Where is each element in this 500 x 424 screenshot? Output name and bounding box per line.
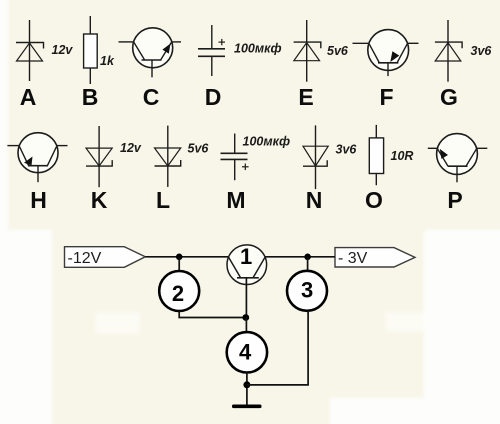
emitter arrow (162, 44, 170, 54)
junction dot right (304, 253, 311, 260)
resistor O (10R) (369, 125, 383, 185)
wire junction to circle 4 (245, 318, 247, 333)
wire component 1 to -3V flag (265, 256, 335, 258)
wire (375, 174, 377, 186)
wire (167, 126, 169, 187)
svg-text:100мкф: 100мкф (234, 42, 282, 56)
svg-text:P: P (447, 187, 462, 213)
cathode bar with bent end (303, 160, 327, 166)
white margin bottom strip (330, 398, 435, 424)
power flag -12V (65, 247, 146, 268)
wire (211, 56, 213, 76)
emitter diagonal (19, 146, 28, 165)
unknown component 3 (287, 271, 327, 311)
emitter arrow (440, 149, 448, 159)
ground (232, 405, 262, 409)
anode triangle (303, 146, 328, 166)
ground junction dot (243, 381, 250, 388)
svg-text:3v6: 3v6 (471, 44, 493, 58)
cathode bar with bent end (16, 43, 44, 49)
collector diagonal (466, 149, 476, 166)
zener diode L (5v6, cathode down) (155, 126, 181, 187)
svg-text:E: E (298, 84, 313, 110)
plate top (221, 152, 248, 154)
collector diagonal (134, 43, 145, 60)
svg-text:C: C (143, 84, 160, 110)
zener diode A (12v) (16, 20, 44, 81)
wire (234, 134, 236, 154)
svg-text:1k: 1k (100, 54, 115, 68)
svg-text:N: N (306, 187, 323, 213)
zener diode G (3v6) (435, 20, 462, 82)
emitter diagonal (438, 149, 448, 166)
svg-text:- 3V: - 3V (338, 250, 368, 267)
zener diode K (12v, cathode down) (86, 126, 112, 187)
wire left (7, 145, 19, 147)
base wire down (151, 60, 153, 77)
svg-text:12v: 12v (52, 43, 74, 57)
emitter arrow (390, 51, 399, 62)
transistor P (NPN, emitter left) (428, 134, 488, 183)
svg-text:1: 1 (240, 244, 252, 269)
plus sign (219, 41, 226, 43)
collector diagonal (229, 257, 241, 277)
base wire down (456, 166, 458, 182)
plate bottom (221, 158, 248, 160)
wire right (57, 145, 68, 147)
svg-text:12v: 12v (120, 141, 142, 155)
white margin lower-right (424, 230, 500, 424)
capacitor M (electrolytic, + bottom) (221, 134, 249, 181)
svg-text:4: 4 (239, 340, 252, 365)
svg-text:5v6: 5v6 (327, 44, 349, 58)
resistor body (84, 34, 98, 68)
wire (375, 125, 377, 138)
collector diagonal (48, 146, 57, 165)
svg-text:A: A (20, 84, 37, 110)
wire (315, 125, 317, 189)
cathode bar with bent end (86, 160, 112, 166)
unknown component 4 (227, 332, 267, 372)
junction dot left (176, 253, 183, 260)
wire circle 4 bottom to ground (246, 373, 248, 405)
faint patch (385, 312, 425, 332)
white margin lower-left (0, 230, 52, 424)
svg-text:O: O (365, 187, 383, 213)
svg-text:G: G (440, 84, 458, 110)
emitter diagonal (253, 257, 265, 277)
zener diode E (5v6) (294, 20, 321, 82)
emitter diagonal (161, 43, 172, 60)
power flag -3V (335, 248, 415, 267)
capacitor D (electrolytic, + top) (198, 25, 225, 76)
faint patch (95, 312, 140, 334)
svg-text:3: 3 (301, 278, 313, 303)
unknown component 2 (159, 271, 199, 311)
svg-text:K: K (91, 187, 108, 213)
transistor H (PNP, emitter left) (7, 133, 67, 183)
transistor circle (133, 28, 173, 68)
wire (306, 20, 308, 82)
plus sign (242, 166, 249, 168)
base bar (142, 59, 162, 61)
transistor circle (368, 30, 409, 71)
base bar (237, 277, 259, 279)
svg-text:-12V: -12V (68, 250, 102, 267)
resistor body (369, 138, 383, 174)
svg-text:2: 2 (172, 281, 184, 306)
base bar (28, 165, 48, 167)
plate bottom (198, 55, 225, 57)
transistor C (NPN, emitter right) (119, 28, 182, 78)
wire left (428, 147, 438, 149)
emitter diagonal (397, 44, 407, 63)
wire left (119, 41, 134, 43)
wire (89, 16, 91, 34)
anode triangle (155, 148, 181, 166)
base wire down (37, 166, 39, 183)
svg-text:M: M (226, 187, 245, 213)
svg-text:H: H (30, 187, 47, 213)
wire right (408, 42, 419, 44)
wire left (353, 42, 369, 44)
wire (211, 25, 213, 49)
wire circle 2 bottom to middle junction (179, 311, 246, 318)
wire (234, 159, 236, 180)
svg-text:3v6: 3v6 (336, 143, 358, 157)
transistor circle (18, 133, 58, 173)
base bar (448, 165, 468, 167)
svg-text:10R: 10R (391, 149, 414, 163)
svg-text:F: F (379, 84, 393, 110)
white margin left strip (0, 0, 8, 233)
collector diagonal (369, 44, 379, 63)
base bar (378, 62, 398, 64)
base wire down (387, 63, 389, 76)
middle junction dot (242, 314, 249, 321)
wire junction to circle 3 (307, 257, 309, 271)
svg-text:L: L (156, 187, 170, 213)
wire right (172, 41, 181, 43)
wire right (477, 147, 488, 149)
cathode bar with bent end (294, 42, 321, 48)
wire (89, 68, 91, 84)
resistor B (1k) (84, 16, 98, 84)
unknown component 1 (transistor outline) (227, 245, 267, 285)
wire (447, 20, 449, 82)
transistor circle (437, 134, 478, 175)
plate top (198, 48, 225, 50)
anode triangle (17, 43, 43, 61)
svg-text:D: D (205, 84, 222, 110)
cathode bar with bent end (155, 160, 181, 166)
wire circle 3 bottom to ground junction (247, 311, 308, 385)
anode triangle (86, 148, 112, 166)
anode triangle (294, 43, 320, 61)
emitter arrow (24, 157, 33, 166)
wire (98, 126, 100, 187)
svg-text:100мкф: 100мкф (243, 135, 291, 149)
zener diode N (3v6, cathode down) (303, 125, 328, 189)
wire base of 1 down to junction (245, 278, 247, 318)
wire junction to circle 2 (178, 257, 180, 271)
wire -12V flag to component 1 (145, 256, 228, 258)
transistor F (PNP, emitter right) (353, 30, 419, 77)
svg-text:5v6: 5v6 (188, 142, 210, 156)
wire (29, 20, 31, 81)
svg-text:B: B (82, 84, 99, 110)
anode triangle (435, 43, 461, 61)
cathode bar with bent end (435, 42, 462, 48)
